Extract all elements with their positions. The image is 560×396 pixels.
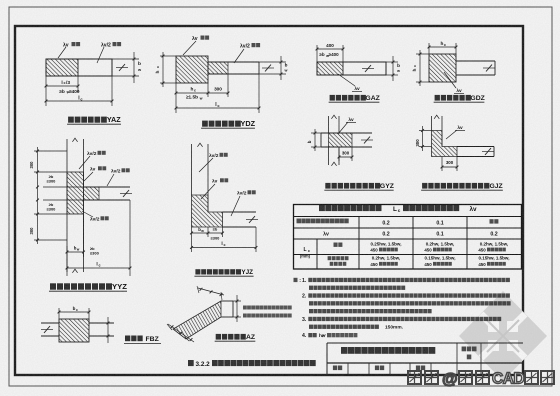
hatched web part: [208, 62, 228, 74]
note line 2: [309, 286, 313, 290]
bottom dim 300: [338, 147, 340, 161]
hatched pilaster: [59, 319, 89, 342]
right dim bw: [259, 61, 286, 63]
horizontal wall GYZ: [321, 132, 372, 134]
label lambda-v zone: [58, 47, 66, 58]
label lambda-v/2 lower: [231, 196, 240, 216]
caption GYZ: [325, 183, 330, 189]
label lambda-v/2 lower: [82, 211, 93, 217]
wall web GDZ: [456, 60, 495, 62]
caption YDZ: [202, 121, 208, 127]
dim lc total: [258, 74, 260, 113]
top dim 400: [316, 45, 318, 62]
note text beside: [243, 306, 247, 310]
caption YJZ: [195, 269, 200, 274]
figure caption 3.2.2: [188, 360, 316, 368]
vertical wall GJZ: [431, 116, 433, 131]
wall through lines: [41, 322, 59, 324]
label lambda-v/2 zone: [97, 47, 104, 63]
watermark text toutiao: [408, 371, 554, 389]
left dimension chain: [34, 150, 67, 152]
table title: [319, 205, 325, 211]
left dim 300: [419, 130, 432, 132]
wall section GAZ: [316, 43, 401, 102]
wall section YAZ: [45, 42, 142, 124]
caption AZ: [216, 334, 221, 340]
top dim: [58, 308, 60, 319]
diagonal top dim: [198, 288, 224, 295]
label lambda-v zone: [183, 41, 196, 55]
wall section GJZ corner wall: [415, 115, 503, 190]
leader lambda-v: [338, 74, 355, 86]
caption YAZ: [68, 117, 74, 123]
dim lc/3: [45, 76, 47, 106]
caption YYZ: [50, 283, 56, 289]
left dim hc: [416, 53, 429, 55]
horizontal wall YJZ: [223, 211, 257, 213]
row seismic grade: [297, 219, 302, 224]
vertical flange wall: [328, 116, 330, 133]
title text: [341, 347, 347, 354]
label FBZ: [125, 336, 130, 342]
label lambda-v/2 upper: [199, 158, 213, 172]
horizontal flange wall: [84, 186, 131, 188]
hatched core GYZ: [329, 133, 353, 147]
left dim hc: [160, 55, 176, 57]
hatched web core: [67, 172, 84, 214]
wall section YYZ wing wall: [29, 138, 132, 291]
watermark logo: [459, 291, 547, 381]
title block: [327, 343, 523, 375]
bottom dim 300: [441, 157, 443, 172]
caption GAZ: [330, 95, 335, 101]
hatched corner YJZ: [192, 195, 223, 227]
hatched core GAZ: [317, 62, 343, 75]
dims below YJZ: [191, 227, 193, 252]
vertical wall YJZ: [191, 144, 193, 195]
dim lc total: [111, 76, 113, 106]
caption GJZ: [422, 183, 427, 189]
diagonal lower dim: [168, 324, 194, 342]
dim hc + 300: [175, 83, 177, 113]
wall continuation tick: [119, 64, 125, 71]
inner thick frame: [15, 26, 523, 375]
leader lambda-v: [338, 122, 348, 134]
horizontal wall: [221, 300, 233, 302]
note line 4: [309, 301, 313, 305]
wall section GYZ wing wall: [307, 115, 394, 190]
wall section YDZ end column: [155, 36, 288, 129]
note line 5: [309, 309, 313, 313]
caption GDZ: [435, 95, 440, 101]
wall thickness dim b: [112, 58, 139, 60]
label lambda-v: [201, 184, 215, 199]
wall section YJZ corner wall: [190, 143, 258, 276]
label lambda-v/2 zone: [234, 49, 244, 63]
hatched end column: [429, 54, 456, 82]
bottom row cells: [347, 363, 349, 375]
note line 1: [294, 278, 298, 282]
hatched core YAZ: [46, 59, 78, 76]
cell end/wing/corner: [328, 256, 332, 260]
wall section diagonal non-edge column: [167, 286, 292, 342]
label lambda-v/2 flange: [107, 174, 114, 186]
dim lc total: [129, 200, 131, 276]
hatched diagonal band: [173, 301, 221, 339]
hatched end column: [176, 56, 208, 83]
label lambda-v/2 upper: [79, 156, 90, 169]
wall web YDZ: [208, 61, 259, 63]
leader lambda-v: [446, 130, 457, 139]
note line 7: [309, 325, 313, 329]
dim lc total: [255, 227, 257, 252]
top dim hc: [428, 43, 430, 54]
wall section FBZ pilaster: [41, 306, 161, 344]
hatched flange part: [84, 187, 100, 200]
hatched corner GJZ: [432, 131, 458, 157]
right dim b: [386, 61, 398, 63]
notes text block: [294, 278, 511, 339]
table constrained edge member lengths: [294, 205, 522, 270]
vertical web wall: [66, 139, 68, 272]
wall section GDZ end column: [412, 41, 495, 102]
label lambda-v: [84, 172, 93, 181]
right dim line: [107, 317, 109, 343]
bottom dim bw: [66, 246, 68, 276]
sheet no cell: [462, 347, 467, 352]
horizontal wall GJZ: [457, 146, 494, 148]
leader lambda-v: [444, 72, 456, 88]
left dim b: [311, 132, 321, 134]
cell concealed column: [334, 243, 338, 247]
